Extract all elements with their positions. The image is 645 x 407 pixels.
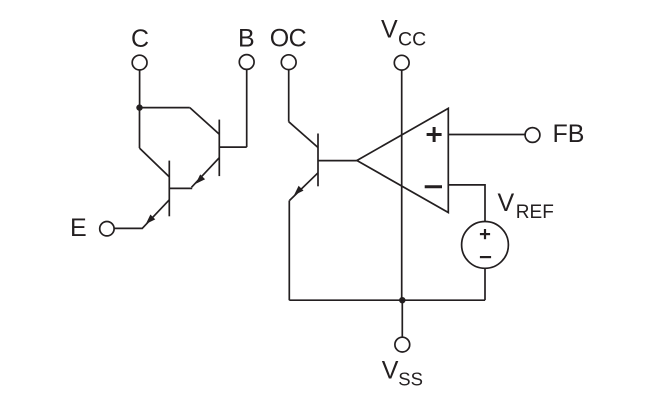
svg-text:C: C [131, 25, 149, 53]
wire VREF to rail [484, 268, 486, 300]
terminal VSS [395, 337, 410, 352]
op-amp U1 [357, 108, 448, 212]
wire OC down [288, 70, 290, 122]
terminal B [239, 55, 254, 70]
terminal FB [525, 128, 540, 143]
svg-text:B: B [238, 25, 255, 53]
node C junction [136, 104, 142, 110]
svg-text:E: E [70, 214, 87, 242]
transistor Q1 [190, 108, 220, 188]
svg-text:OC: OC [270, 25, 307, 53]
wire E horizontal [114, 227, 143, 229]
wire node to Q1 collector [140, 107, 190, 109]
node rail junction [399, 297, 405, 303]
terminal E [100, 222, 114, 236]
terminal VCC [394, 55, 409, 70]
terminal C [132, 55, 147, 70]
wire node down to Q2 collector [139, 108, 141, 149]
wire - input to VREF [448, 185, 485, 222]
wire VCC down [401, 70, 403, 300]
wire VSS down [401, 300, 403, 337]
wire C down [139, 70, 141, 108]
wire Q1 base lead [219, 146, 246, 148]
wire bottom rail [289, 299, 485, 301]
svg-text:VCC: VCC [381, 15, 426, 50]
wire B down [246, 69, 248, 147]
svg-text:VSS: VSS [382, 357, 423, 390]
wire Q3 emitter down [288, 201, 290, 301]
source VREF [462, 222, 509, 269]
wire + input to FB [448, 134, 525, 136]
wire Q2 base lead [169, 187, 192, 189]
svg-text:VREF: VREF [498, 189, 554, 223]
svg-text:FB: FB [553, 120, 585, 148]
wire Q3 base lead [318, 160, 357, 162]
terminal OC [281, 55, 296, 70]
transistor Q2 [140, 148, 170, 228]
transistor Q3 [289, 122, 318, 201]
